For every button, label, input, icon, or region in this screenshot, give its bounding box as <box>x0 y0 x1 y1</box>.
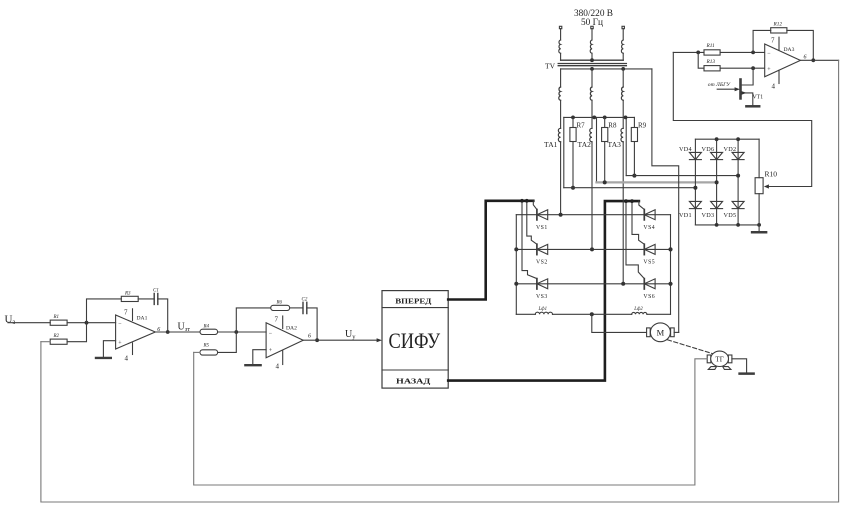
ground VT1 <box>746 105 759 108</box>
pin 7 DA3 <box>778 37 780 50</box>
wire motor armature feed <box>592 314 647 332</box>
wire Uз to R1 <box>8 322 50 324</box>
node rectifier top bus junctions <box>715 137 719 141</box>
svg-text:R1: R1 <box>53 315 60 320</box>
svg-text:VS6: VS6 <box>643 294 655 300</box>
wire feedback riser <box>87 299 122 323</box>
rectifier left column <box>694 139 696 225</box>
pin 4 DA3 <box>778 70 780 83</box>
svg-text:7: 7 <box>771 37 775 45</box>
svg-text:М: М <box>657 328 665 338</box>
svg-text:+: + <box>269 348 273 354</box>
node secondary bus junction C <box>621 67 625 71</box>
terminal phase A <box>559 26 561 28</box>
rectifier bottom bus <box>695 224 759 226</box>
transistor VT1 <box>739 80 742 99</box>
thyristor row 2 <box>516 248 670 250</box>
svg-text:4: 4 <box>276 363 280 371</box>
node DA3 input junction <box>696 51 700 55</box>
tachogenerator TG <box>711 351 729 366</box>
resistor R13 <box>704 66 720 71</box>
wire R5 left to tacho feedback loop <box>194 351 200 353</box>
wire secondary bus end down to motor branch <box>652 69 679 333</box>
wire secondary bus <box>561 68 652 70</box>
wire primary star bar <box>561 59 624 61</box>
node left bus row2 junction <box>514 247 518 251</box>
wire R13 to DA3 noninverting input <box>720 67 765 69</box>
wire TG right to ground <box>732 359 747 373</box>
op-amp DA1 <box>116 315 156 349</box>
svg-text:+: + <box>767 67 771 73</box>
terminal phase C <box>622 26 624 28</box>
R10 wiper arrow <box>764 184 769 188</box>
diode VD5 <box>732 201 744 208</box>
svg-text:VT1: VT1 <box>753 95 764 101</box>
svg-text:DA1: DA1 <box>137 316 148 322</box>
node phase C row3 junction <box>621 282 625 286</box>
node DA3 output junction <box>811 58 815 62</box>
thyristor VS1 <box>536 210 538 220</box>
wire C2 to DA2 output node <box>307 308 317 340</box>
svg-text:VS2: VS2 <box>536 260 548 266</box>
svg-text:от ЛБГУ: от ЛБГУ <box>708 82 732 88</box>
thyristor VS4 <box>643 210 645 220</box>
wire R2 left to outer feedback loop <box>41 341 50 343</box>
thyristor row 3 <box>516 283 670 285</box>
resistor R6 <box>271 305 290 310</box>
rectifier right column <box>737 139 739 225</box>
wire gate VS6 <box>626 201 644 279</box>
wire DA3 output <box>800 59 838 61</box>
svg-text:VD5: VD5 <box>724 212 737 219</box>
thyristor VS2 <box>536 244 538 254</box>
wire TA1 secondary drop <box>563 117 565 187</box>
svg-text:Lф2: Lф2 <box>633 307 643 312</box>
wire gate VS4 <box>639 201 644 209</box>
wire thick NAZAD gate feed <box>448 201 639 381</box>
diode VD6 <box>711 152 723 159</box>
svg-text:C1: C1 <box>153 289 159 294</box>
potentiometer R10 <box>758 139 760 225</box>
svg-text:R10: R10 <box>765 170 778 179</box>
wire C1 to DA1 output node <box>158 299 168 332</box>
resistor R7 <box>572 117 574 187</box>
resistor R11 <box>704 50 720 55</box>
transformer TV core <box>558 64 626 66</box>
motor M brushes <box>647 328 651 337</box>
terminal phase B <box>591 26 593 28</box>
wire DA3 input horizontal <box>673 51 704 53</box>
svg-text:R4: R4 <box>203 324 210 329</box>
svg-text:4: 4 <box>772 83 776 91</box>
wire DA2 feedback riser <box>236 308 270 332</box>
diode VD4 <box>689 152 701 159</box>
node dc link motor tap <box>590 312 594 316</box>
wire R12 to DA3 output node <box>787 30 813 60</box>
wire sync line phase B to rectifier middle column (thick gray) <box>597 181 717 183</box>
node rectifier mid junction middle <box>715 180 719 184</box>
node DA2 output junction <box>315 338 319 342</box>
node R7 bottom junction <box>571 186 575 190</box>
node DA1 output junction <box>166 330 170 334</box>
node bus dot R7 <box>571 116 575 120</box>
thyristor VS5 <box>643 244 645 254</box>
wire motor right terminal <box>674 331 679 333</box>
wire right cathode bus <box>670 215 672 315</box>
svg-text:R11: R11 <box>706 43 715 49</box>
resistor R12 <box>771 28 787 33</box>
resistor R3 <box>121 296 138 301</box>
svg-text:−: − <box>118 322 122 328</box>
SIFU input arrowhead <box>377 338 382 342</box>
pin 7 DA1 <box>132 309 134 321</box>
wire R2 to DA1 input node <box>67 323 86 342</box>
resistor R9 <box>633 117 635 175</box>
svg-text:VS1: VS1 <box>536 225 548 231</box>
node right bus row2 junction <box>668 247 672 251</box>
svg-text:VS3: VS3 <box>536 294 548 300</box>
node left bus row3 junction <box>514 282 518 286</box>
svg-text:VD3: VD3 <box>702 212 715 219</box>
wire thick VPERED gate feed <box>448 201 533 300</box>
thyristor VS6 <box>643 279 645 289</box>
wire R3 to C1 <box>138 298 154 300</box>
svg-text:R12: R12 <box>773 22 783 28</box>
svg-text:R13: R13 <box>706 59 716 65</box>
svg-text:СИФУ: СИФУ <box>389 328 441 353</box>
resistor R4 <box>200 329 218 334</box>
node gate tap VS5 <box>630 199 634 203</box>
svg-text:R5: R5 <box>203 344 210 349</box>
wire branch to R13 <box>698 52 704 68</box>
op-amp DA3 <box>765 44 801 77</box>
wire secondary phase C conductor with TA3 coil <box>622 69 624 87</box>
node bus dot phase C <box>624 116 628 120</box>
wire VT1 collector riser <box>741 68 754 85</box>
svg-text:50 Гц: 50 Гц <box>581 17 603 27</box>
wire secondary phase B conductor with TA2 coil <box>591 69 593 87</box>
svg-text:−: − <box>767 51 771 57</box>
ground DA1 <box>96 357 111 359</box>
diode VD3 <box>711 201 723 208</box>
block SIFU <box>382 291 448 389</box>
wire dc link with chokes <box>516 313 535 315</box>
ground below R10 <box>758 225 760 232</box>
svg-text:R7: R7 <box>577 121 586 129</box>
wire dc link middle <box>553 313 632 315</box>
svg-text:ТГ: ТГ <box>715 356 723 364</box>
rectifier middle column <box>716 139 718 225</box>
node right bus row3 junction <box>668 282 672 286</box>
wire left cathode bus <box>515 215 517 315</box>
wire Uy DA2 output to SIFU <box>303 339 378 341</box>
svg-text:6: 6 <box>308 334 311 340</box>
wire R11 to DA3 inverting input <box>720 51 765 53</box>
wire sync line phase C to rectifier right column <box>626 175 738 177</box>
svg-text:R9: R9 <box>638 121 647 129</box>
thyristor row 1 <box>516 214 670 216</box>
svg-text:Lф1: Lф1 <box>538 307 547 312</box>
svg-text:R8: R8 <box>608 121 617 129</box>
resistor R2 <box>50 339 67 344</box>
resistor R5 <box>200 350 218 355</box>
choke Lf2 <box>632 312 647 314</box>
wire TG left feedback to R5 <box>194 352 708 485</box>
node R13 output junction <box>751 66 755 70</box>
svg-text:ТА2: ТА2 <box>578 140 592 149</box>
node phase A row1 junction <box>559 213 563 217</box>
node gate tap VS2 <box>525 199 529 203</box>
svg-text:C2: C2 <box>302 298 308 303</box>
node secondary bus junction B <box>590 67 594 71</box>
ground DA2 <box>245 364 260 366</box>
svg-text:DA3: DA3 <box>784 47 795 53</box>
node bus dot phase B <box>592 116 596 120</box>
wire dc link right <box>647 313 671 315</box>
svg-text:4: 4 <box>125 355 129 363</box>
wire secondary phase A winding and conductor with TA1 coil <box>560 69 562 87</box>
tacho TG brushes <box>707 355 711 363</box>
svg-text:VD6: VD6 <box>702 146 715 153</box>
wire DA1 noninverting input <box>103 341 115 358</box>
node R11 output junction <box>751 51 755 55</box>
pin 7 DA2 <box>282 316 284 329</box>
svg-text:НАЗАД: НАЗАД <box>396 376 431 385</box>
svg-text:−: − <box>269 331 273 337</box>
op-amp DA2 <box>266 323 303 358</box>
node rectifier mid junction left <box>693 186 697 190</box>
diode VD2 <box>732 152 744 159</box>
node rectifier mid junction right <box>736 174 740 178</box>
svg-text:R6: R6 <box>276 301 283 306</box>
pin 4 DA2 <box>282 351 284 365</box>
VT1 emitter wire <box>741 93 753 106</box>
wire DA1 output to R4 <box>155 331 200 333</box>
pin 4 DA1 <box>132 343 134 355</box>
node primary neutral junction <box>590 58 594 62</box>
node rectifier bottom bus junctions <box>715 223 719 227</box>
node bus dot R8 <box>603 116 607 120</box>
wire primary phase B with winding <box>591 29 593 61</box>
choke Lf1 <box>535 312 552 314</box>
svg-text:VD2: VD2 <box>724 146 737 153</box>
wire R4 to DA2 inverting node <box>218 331 267 333</box>
wire gate VS2 <box>527 201 537 244</box>
node DA2 input junction <box>234 330 238 334</box>
node phase B row2 junction <box>590 247 594 251</box>
node gate tap VS3 <box>520 199 524 203</box>
svg-text:R2: R2 <box>53 334 60 339</box>
svg-text:VD4: VD4 <box>679 146 692 153</box>
wire TA2 secondary drop <box>596 117 598 182</box>
svg-text:VS4: VS4 <box>643 225 655 231</box>
capacitor C2 <box>303 302 307 313</box>
wire gate VS3 <box>522 201 537 279</box>
svg-text:R3: R3 <box>124 292 131 297</box>
wire primary phase C with winding <box>622 29 624 61</box>
wire R6 to C2 <box>290 307 303 309</box>
wire R1 to DA1 inverting node <box>67 322 116 324</box>
node R9 bottom junction <box>632 174 636 178</box>
resistor R8 <box>604 117 606 182</box>
wire primary phase A with winding <box>560 29 562 61</box>
wire TA3 secondary drop <box>625 117 627 175</box>
svg-text:ТА1: ТА1 <box>544 140 558 149</box>
motor M <box>650 323 670 342</box>
wire TA measuring bus <box>564 116 635 118</box>
wire DA3 feedback riser <box>753 30 771 52</box>
node DA1 input junction <box>85 321 89 325</box>
wire gate VS5 <box>632 201 644 244</box>
rectifier top bus <box>695 138 759 140</box>
capacitor C1 <box>154 293 158 304</box>
resistor R1 <box>50 320 67 325</box>
wire R5 to DA2 input node <box>218 332 237 352</box>
node R8 bottom junction <box>603 180 607 184</box>
svg-text:VS5: VS5 <box>643 260 655 266</box>
diode VD1 <box>689 201 701 208</box>
svg-text:7: 7 <box>275 316 279 324</box>
wire R10 wiper to DA3 input <box>673 52 811 186</box>
wire sync line phase A to rectifier left column <box>564 187 696 189</box>
svg-text:ТА3: ТА3 <box>608 140 622 149</box>
thyristor VS3 <box>536 279 538 289</box>
node gate tap VS6 <box>624 199 628 203</box>
svg-text:TV: TV <box>545 62 556 71</box>
svg-text:+: + <box>118 340 122 346</box>
VT1 base wire with arrow <box>717 88 735 90</box>
ground TG <box>740 372 754 375</box>
mechanical coupling dashed <box>668 340 713 354</box>
svg-text:DA2: DA2 <box>286 325 297 331</box>
wire DA2 noninverting input <box>253 350 266 365</box>
svg-text:7: 7 <box>124 309 128 317</box>
svg-text:ВПЕРЕД: ВПЕРЕД <box>395 296 432 305</box>
svg-text:VD1: VD1 <box>679 212 692 219</box>
tacho feet <box>708 367 731 370</box>
wire gate VS1 <box>533 201 537 210</box>
